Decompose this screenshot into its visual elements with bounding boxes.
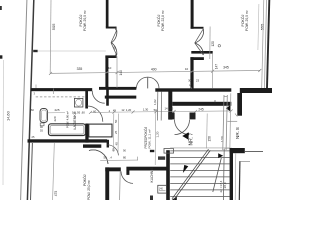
svg-text:60: 60 xyxy=(213,100,217,104)
svg-text:POW. 11,1 m²: POW. 11,1 m² xyxy=(147,129,151,148)
svg-text:225: 225 xyxy=(54,108,59,112)
svg-text:50: 50 xyxy=(103,156,107,160)
svg-text:25: 25 xyxy=(114,130,118,134)
svg-text:23: 23 xyxy=(196,79,200,83)
svg-text:120: 120 xyxy=(211,41,215,47)
svg-text:45: 45 xyxy=(113,108,117,112)
svg-text:147: 147 xyxy=(214,64,218,70)
svg-text:140: 140 xyxy=(119,70,123,76)
svg-text:POW. 25,0 m²: POW. 25,0 m² xyxy=(87,180,91,200)
svg-text:50: 50 xyxy=(154,108,158,112)
svg-text:,90: ,90 xyxy=(169,106,173,110)
svg-text:12: 12 xyxy=(121,108,125,112)
svg-text:345: 345 xyxy=(223,66,229,70)
svg-text:KUCHNIA: KUCHNIA xyxy=(150,167,154,183)
svg-text:NR. 8: NR. 8 xyxy=(235,127,240,139)
svg-text:140: 140 xyxy=(159,188,164,191)
svg-text:60: 60 xyxy=(31,108,34,112)
svg-text:335: 335 xyxy=(77,67,83,71)
svg-text:40: 40 xyxy=(114,142,118,146)
svg-text:158: 158 xyxy=(208,136,212,142)
svg-text:60: 60 xyxy=(93,110,97,114)
svg-text:,95: ,95 xyxy=(76,110,80,114)
svg-text:POW. 20,0 m²: POW. 20,0 m² xyxy=(245,9,249,31)
svg-text:505: 505 xyxy=(51,23,56,30)
svg-text:1,20: 1,20 xyxy=(155,131,159,137)
svg-text:245: 245 xyxy=(198,108,204,112)
svg-text:POW. 4,90 m²: POW. 4,90 m² xyxy=(65,111,69,128)
svg-text:,60: ,60 xyxy=(81,110,85,114)
svg-text:1,20: 1,20 xyxy=(126,108,132,112)
svg-text:50: 50 xyxy=(114,119,118,123)
svg-text:1,02: 1,02 xyxy=(153,99,157,105)
svg-text:475: 475 xyxy=(54,191,58,197)
svg-text:10: 10 xyxy=(108,66,112,70)
svg-text:220: 220 xyxy=(53,116,57,121)
svg-text:80: 80 xyxy=(123,155,127,159)
svg-text:400: 400 xyxy=(151,67,157,71)
svg-text:POW. 20,0 m²: POW. 20,0 m² xyxy=(83,9,87,31)
svg-text:25: 25 xyxy=(111,148,115,152)
svg-text:555: 555 xyxy=(259,23,264,30)
svg-text:NR. 7: NR. 7 xyxy=(188,133,194,146)
svg-text:10: 10 xyxy=(72,110,76,114)
svg-text:10: 10 xyxy=(185,67,189,71)
svg-text:: 28,0: : 28,0 xyxy=(223,182,227,190)
svg-text:14: 14 xyxy=(164,106,168,110)
svg-text:30: 30 xyxy=(188,79,192,83)
svg-text:14,60: 14,60 xyxy=(6,110,11,121)
svg-text:1,30: 1,30 xyxy=(143,107,149,111)
svg-text:POW. 22,8 m²: POW. 22,8 m² xyxy=(161,9,165,31)
